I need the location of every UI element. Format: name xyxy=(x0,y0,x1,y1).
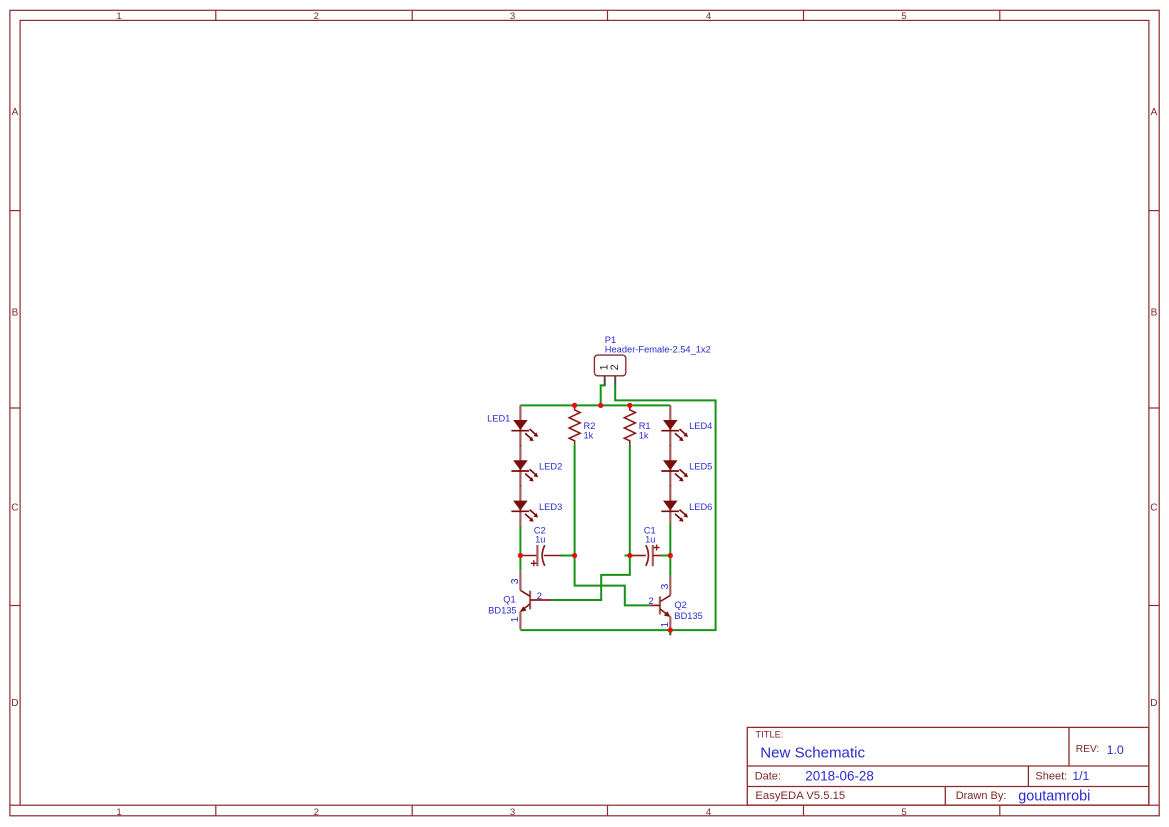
svg-text:TITLE:: TITLE: xyxy=(755,729,783,740)
svg-text:A: A xyxy=(1151,107,1158,118)
frame zone numbers top xyxy=(116,11,906,22)
svg-text:2: 2 xyxy=(609,364,621,370)
svg-text:4: 4 xyxy=(706,807,712,818)
svg-text:4: 4 xyxy=(706,11,712,22)
capacitor C1 xyxy=(633,526,661,567)
svg-text:Q2: Q2 xyxy=(674,600,686,610)
svg-text:R1: R1 xyxy=(639,421,651,431)
svg-text:2: 2 xyxy=(314,807,319,818)
wire: C1 right stub xyxy=(661,555,671,557)
svg-text:1u: 1u xyxy=(535,535,545,545)
wire: power bus xyxy=(520,404,670,406)
svg-text:2018-06-28: 2018-06-28 xyxy=(805,768,874,783)
svg-text:3: 3 xyxy=(660,583,671,589)
svg-text:1/1: 1/1 xyxy=(1072,769,1089,783)
junction at C1 right / LED6 node xyxy=(668,553,673,558)
wire: C2 node cross to Q2 base xyxy=(575,556,650,606)
resistor R1 xyxy=(624,406,650,444)
svg-text:3: 3 xyxy=(510,807,515,818)
pin 2 lead xyxy=(614,376,616,385)
svg-text:goutamrobi: goutamrobi xyxy=(1018,789,1090,805)
svg-text:B: B xyxy=(12,307,19,318)
svg-text:D: D xyxy=(1150,698,1157,709)
svg-text:P1: P1 xyxy=(605,335,616,345)
svg-text:LED5: LED5 xyxy=(689,461,712,471)
svg-text:LED6: LED6 xyxy=(689,502,712,512)
svg-text:5: 5 xyxy=(901,11,906,22)
LED2 xyxy=(511,446,562,486)
svg-text:Sheet:: Sheet: xyxy=(1035,771,1067,783)
junction at R2 top on bus xyxy=(572,403,577,408)
svg-text:LED2: LED2 xyxy=(539,461,562,471)
wire: stub below Q2 emitter junction xyxy=(669,630,671,635)
wire: below R1 to C1 node xyxy=(629,445,631,556)
LED1 xyxy=(487,405,538,445)
svg-text:1k: 1k xyxy=(584,430,594,440)
junction at C2 left / LED3 node xyxy=(518,553,523,558)
svg-text:REV:: REV: xyxy=(1076,744,1099,755)
LED5 xyxy=(661,446,712,486)
wire: right chain mid segment xyxy=(669,524,671,575)
svg-text:R2: R2 xyxy=(584,421,596,431)
junction at C1 left / R1 node xyxy=(627,553,632,558)
svg-text:1: 1 xyxy=(510,616,521,622)
junction at R1 top on bus xyxy=(627,403,632,408)
svg-text:5: 5 xyxy=(901,807,906,818)
svg-text:A: A xyxy=(12,107,19,118)
svg-text:LED3: LED3 xyxy=(539,502,562,512)
junction at Q2 emitter on bottom rail xyxy=(668,628,673,633)
svg-text:B: B xyxy=(1151,307,1158,318)
svg-text:D: D xyxy=(11,698,18,709)
wire: C2 right stub xyxy=(560,555,575,557)
junction at C2 right / R2 node xyxy=(572,553,577,558)
svg-text:Q1: Q1 xyxy=(503,595,515,605)
transistor Q1 xyxy=(488,571,550,630)
LED pin junction dots xyxy=(520,445,672,487)
svg-text:New Schematic: New Schematic xyxy=(760,745,865,762)
svg-text:Header-Female-2.54_1x2: Header-Female-2.54_1x2 xyxy=(605,345,711,355)
svg-text:1u: 1u xyxy=(645,535,655,545)
svg-text:3: 3 xyxy=(510,11,515,22)
svg-text:2: 2 xyxy=(314,11,319,22)
header P1 xyxy=(594,335,710,386)
wire: C1 left stub xyxy=(625,555,634,557)
svg-text:1: 1 xyxy=(116,11,121,22)
LED4 xyxy=(661,405,712,445)
wire: P1 pin2 right side down to bottom rail xyxy=(520,385,715,630)
svg-text:BD135: BD135 xyxy=(488,606,516,616)
svg-text:Drawn By:: Drawn By: xyxy=(956,790,1007,802)
svg-text:C: C xyxy=(11,502,18,513)
svg-text:EasyEDA V5.5.15: EasyEDA V5.5.15 xyxy=(755,790,845,802)
svg-text:LED1: LED1 xyxy=(487,413,510,423)
svg-text:3: 3 xyxy=(510,578,521,584)
transistor Q2 xyxy=(648,575,702,630)
svg-text:2: 2 xyxy=(648,596,653,607)
LED3 xyxy=(511,486,562,526)
svg-text:1: 1 xyxy=(116,807,121,818)
svg-text:2: 2 xyxy=(537,591,542,602)
frame zone numbers bottom xyxy=(116,807,906,818)
LED6 xyxy=(661,486,712,524)
wire: C1 node cross to Q1 base xyxy=(551,556,630,601)
title block lines xyxy=(747,727,1149,805)
svg-text:Date:: Date: xyxy=(755,771,781,783)
svg-text:LED4: LED4 xyxy=(689,421,712,431)
svg-text:1: 1 xyxy=(660,622,671,628)
junction at P1 pin1 on bus xyxy=(598,403,603,408)
resistor R2 xyxy=(569,406,595,444)
svg-text:C: C xyxy=(1150,502,1157,513)
svg-text:1k: 1k xyxy=(639,430,649,440)
svg-text:1.0: 1.0 xyxy=(1107,743,1124,757)
frame zone letters right xyxy=(1150,107,1157,709)
pin 1 lead xyxy=(604,376,606,386)
wire: P1 pin1 jog to bus xyxy=(601,385,606,406)
frame zone letters left xyxy=(11,107,18,709)
svg-text:BD135: BD135 xyxy=(674,611,702,621)
wire: left chain mid segment xyxy=(519,526,521,571)
wire: below R2 to C2 node xyxy=(574,445,576,556)
capacitor C2 xyxy=(521,526,560,567)
